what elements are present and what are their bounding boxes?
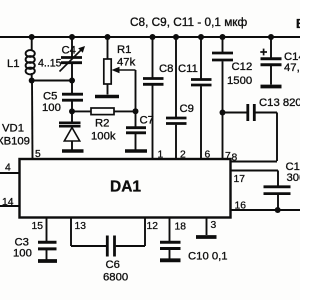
svg-text:15: 15 xyxy=(32,221,44,232)
svg-text:100: 100 xyxy=(13,248,32,260)
resistor R1 trimmer xyxy=(104,37,136,111)
node C8 top xyxy=(150,34,156,40)
op-amp DA1 box xyxy=(20,159,231,218)
capacitor C13 xyxy=(223,104,278,161)
node C5/VD1/R2 xyxy=(69,108,75,114)
svg-text:6800: 6800 xyxy=(103,272,128,284)
node C12 top xyxy=(220,34,226,40)
svg-text:L1: L1 xyxy=(7,58,20,70)
capacitor C7 xyxy=(126,111,146,149)
wire pin 3 to ground xyxy=(206,218,208,235)
svg-text:14: 14 xyxy=(2,197,14,208)
svg-text:C5: C5 xyxy=(43,91,57,103)
svg-text:17: 17 xyxy=(234,174,246,185)
node C14 top xyxy=(268,34,274,40)
capacitor C9 xyxy=(166,37,187,159)
node C12/C13 xyxy=(220,110,226,116)
node C4 top xyxy=(69,34,75,40)
svg-text:C9: C9 xyxy=(180,103,194,115)
ground C3 xyxy=(38,259,57,263)
node C15/pin16 xyxy=(275,207,281,213)
node L1 top xyxy=(29,34,35,40)
svg-text:1500: 1500 xyxy=(227,75,252,87)
node C9 top xyxy=(173,34,179,40)
wire pin 16 xyxy=(231,209,301,211)
svg-text:8: 8 xyxy=(232,153,238,164)
svg-text:4: 4 xyxy=(5,163,11,174)
svg-text:100k: 100k xyxy=(91,131,116,143)
ground C10 xyxy=(160,258,181,262)
capacitor C10 xyxy=(160,218,181,259)
svg-text:6: 6 xyxy=(205,150,211,161)
svg-text:2: 2 xyxy=(180,150,186,161)
svg-text:C11: C11 xyxy=(178,63,198,75)
svg-text:R1: R1 xyxy=(117,44,131,56)
svg-text:4..15: 4..15 xyxy=(38,58,62,70)
capacitor C3 xyxy=(38,218,57,260)
svg-text:1: 1 xyxy=(158,150,164,161)
svg-text:5: 5 xyxy=(35,149,41,160)
label C14 plus xyxy=(260,49,267,56)
svg-text:47,0: 47,0 xyxy=(284,62,300,74)
ground C14 xyxy=(261,85,282,89)
svg-text:C4: C4 xyxy=(62,45,76,57)
svg-text:C6: C6 xyxy=(106,259,120,271)
wire pin 14 xyxy=(0,205,20,207)
svg-text:КВ109: КВ109 xyxy=(0,136,30,148)
capacitor C15 xyxy=(264,187,291,210)
wire top supply rail xyxy=(0,36,300,38)
svg-text:300: 300 xyxy=(287,172,301,184)
ground pin 3 xyxy=(196,235,217,239)
node C11 top xyxy=(198,34,204,40)
wire L1 bottom to C4 bottom xyxy=(32,80,72,82)
svg-text:7: 7 xyxy=(225,151,231,162)
svg-text:C13 820: C13 820 xyxy=(259,97,300,109)
node L1 bottom xyxy=(29,78,35,84)
varicap diode VD1 xyxy=(59,111,81,149)
node R2/R1 wiper/C7 xyxy=(133,108,139,114)
node R1 top xyxy=(105,34,111,40)
svg-text:13: 13 xyxy=(75,221,87,232)
svg-text:3: 3 xyxy=(211,220,217,231)
wire pin 17 xyxy=(231,171,279,186)
wire pin 8 xyxy=(231,161,278,163)
capacitor C14 electrolytic xyxy=(261,37,282,85)
node C4 bottom / C5 top xyxy=(69,78,75,84)
svg-text:C7: C7 xyxy=(140,115,154,127)
svg-text:C8, C9, C11 - 0,1 мкф: C8, C9, C11 - 0,1 мкф xyxy=(130,15,247,29)
capacitor C8 xyxy=(143,37,164,159)
svg-text:C12: C12 xyxy=(232,61,253,73)
svg-text:VD1: VD1 xyxy=(2,123,24,135)
wire to pin 5 xyxy=(31,81,34,160)
svg-text:18: 18 xyxy=(175,222,187,233)
svg-text:DA1: DA1 xyxy=(110,179,141,196)
svg-text:В: В xyxy=(296,17,300,31)
capacitor C11 xyxy=(191,37,212,159)
capacitor C5 xyxy=(62,81,83,112)
wire pin 4 xyxy=(0,172,20,174)
svg-text:C8: C8 xyxy=(159,63,173,75)
ground C7 xyxy=(125,149,147,153)
resistor R2 xyxy=(72,108,136,115)
svg-text:C10 0,1: C10 0,1 xyxy=(188,251,228,263)
inductor L1 xyxy=(26,37,35,81)
svg-text:R2: R2 xyxy=(95,118,109,130)
ground R1 xyxy=(95,95,119,99)
svg-text:47k: 47k xyxy=(117,57,136,69)
svg-text:100: 100 xyxy=(42,102,61,114)
capacitor C6 xyxy=(71,218,145,257)
capacitor C12 xyxy=(212,37,233,159)
svg-text:12: 12 xyxy=(147,221,159,232)
capacitor C4 trimmer xyxy=(60,37,86,81)
ground VD1 xyxy=(62,149,84,153)
svg-text:16: 16 xyxy=(235,201,247,212)
